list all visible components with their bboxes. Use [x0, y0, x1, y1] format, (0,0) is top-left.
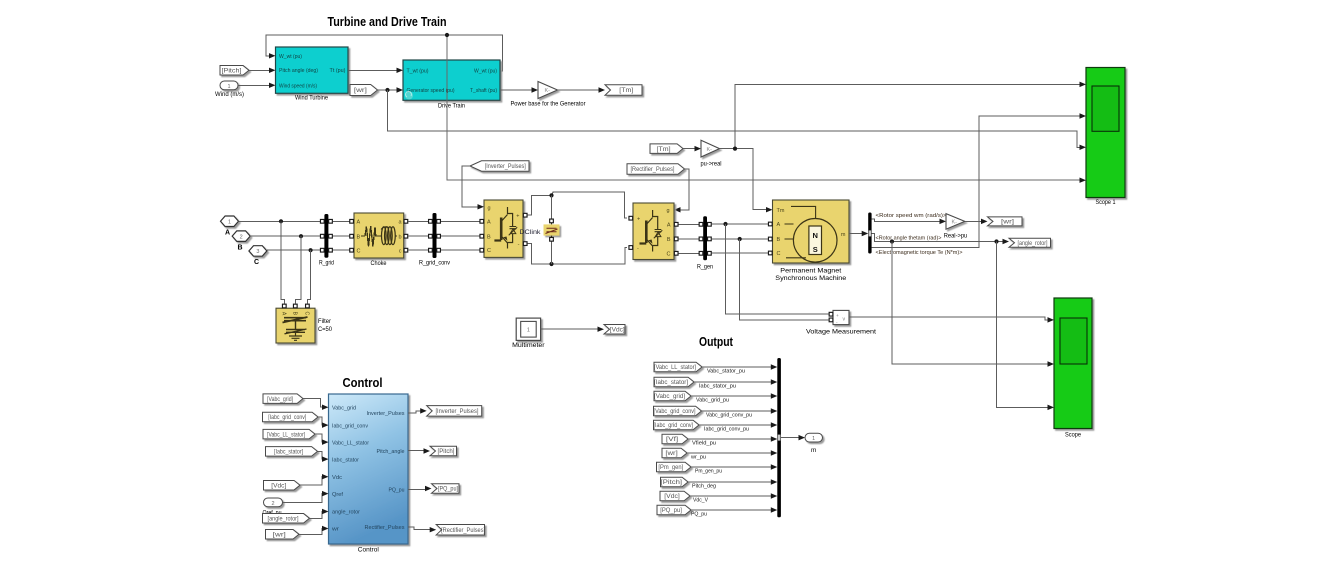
- svg-text:2: 2: [271, 501, 274, 507]
- wire electromagnetic torque to Scope1 in2: [872, 113, 1086, 256]
- svg-text:[Vdc]: [Vdc]: [271, 483, 286, 489]
- goto tag [Inverter_Pulses]: [427, 406, 482, 417]
- svg-text:C: C: [487, 248, 491, 254]
- wire rotor angle thetam: [872, 234, 1009, 245]
- wire [Iabc_grid_conv] to mux: [699, 422, 777, 432]
- wire PMSM B to voltage measurement: [740, 239, 829, 320]
- svg-text:[Inverter_Pulses]: [Inverter_Pulses]: [485, 164, 526, 170]
- wire wr to Control: [299, 526, 329, 535]
- wire gain to [wr] goto: [965, 219, 988, 224]
- from tag [wr] control: [266, 530, 300, 540]
- svg-text:[Vabc_LL_stator]: [Vabc_LL_stator]: [654, 365, 696, 371]
- svg-text:[Pitch]: [Pitch]: [222, 68, 242, 74]
- wire Control to [Inverter_Pulses]: [408, 408, 427, 413]
- wire Vdc to Control: [300, 474, 329, 485]
- wire gain to [Tm]: [558, 87, 606, 92]
- from tag [Tm]: [650, 144, 683, 154]
- svg-text:[Vdc]: [Vdc]: [610, 327, 625, 333]
- svg-text:[PQ_pu]: [PQ_pu]: [660, 508, 682, 514]
- wire Multimeter to [Vdc]: [541, 326, 604, 331]
- from tag [Vdc] output: [660, 491, 690, 501]
- mux Output: [777, 358, 781, 517]
- wire Control to [Pitch]: [408, 448, 430, 453]
- svg-text:Filter: Filter: [318, 318, 332, 325]
- svg-text:Synchronous Machine: Synchronous Machine: [775, 275, 846, 282]
- svg-text:Vabc_grid: Vabc_grid: [332, 405, 356, 411]
- from tag [Vabc_grid_conv] output: [654, 406, 702, 416]
- port 2: [232, 231, 250, 251]
- block Universal Bridge grid converter: [480, 200, 527, 257]
- from tag [Vdc] control: [264, 480, 301, 490]
- wire [Pitch] to mux: [688, 479, 777, 489]
- wire W_wt branch to Scope1 in4: [445, 33, 1086, 183]
- goto tag [angle_rotor]: [1009, 238, 1051, 247]
- wire [wr] to mux: [687, 450, 777, 460]
- svg-text:Control: Control: [358, 547, 380, 554]
- svg-text:[angle_rotor]: [angle_rotor]: [1018, 241, 1048, 247]
- svg-text:Control: Control: [343, 376, 383, 390]
- wire Rectifier_Pulses to converter g: [674, 169, 689, 213]
- svg-text:[Rectifier_Pulses]: [Rectifier_Pulses]: [630, 167, 674, 173]
- svg-text:Pitch_deg: Pitch_deg: [692, 484, 716, 490]
- wire wr to Scope1 in3: [388, 90, 1087, 150]
- from tag [Pm_gen] output: [657, 462, 692, 472]
- from tag [angle_rotor] control: [263, 514, 310, 524]
- wire rotor speed to gain: [872, 213, 948, 224]
- wire Pitch to Wind Turbine: [249, 68, 276, 73]
- svg-text:R_grid_conv: R_grid_conv: [419, 259, 451, 266]
- svg-text:Scope: Scope: [1065, 431, 1081, 438]
- svg-text:Scope 1: Scope 1: [1096, 199, 1116, 206]
- wire feedback W_wt to Wind Turbine: [266, 35, 503, 71]
- block Choke: [350, 213, 408, 267]
- svg-text:Turbine and Drive Train: Turbine and Drive Train: [328, 15, 447, 29]
- svg-text:Vabc_stator_pu: Vabc_stator_pu: [707, 369, 745, 375]
- svg-text:3: 3: [256, 249, 259, 255]
- svg-text:[Iabc_grid_conv]: [Iabc_grid_conv]: [268, 415, 306, 421]
- wire R_gen to PMSM A: [712, 222, 768, 226]
- wire voltage measurement to Scope in1: [849, 317, 1054, 323]
- svg-text:[Vf]: [Vf]: [666, 437, 679, 443]
- svg-text:N: N: [812, 231, 817, 240]
- wire DC plus rail: [528, 192, 628, 218]
- wire Wind speed to Wind Turbine: [238, 83, 276, 88]
- svg-text:PQ_pu: PQ_pu: [389, 488, 405, 494]
- svg-text:[Tm]: [Tm]: [619, 88, 633, 94]
- from tag [Rectifier_Pulses]: [627, 164, 685, 175]
- gain Real to pu: [944, 214, 968, 240]
- svg-text:A: A: [667, 222, 671, 228]
- gain Power base for the Generator: [511, 82, 587, 108]
- svg-text:g: g: [488, 206, 491, 212]
- wire Iabc_grid_conv to Control: [318, 417, 329, 428]
- svg-text:C: C: [777, 251, 781, 257]
- svg-text:T_shaft (pu): T_shaft (pu): [470, 88, 497, 94]
- svg-text:Tm: Tm: [777, 208, 785, 214]
- svg-text:Pitch_angle: Pitch_angle: [377, 449, 405, 455]
- svg-text:pu->real: pu->real: [701, 160, 722, 167]
- from tag [Vabc_grid] control: [263, 394, 303, 404]
- from tag [Vabc_grid] output: [654, 391, 691, 401]
- svg-text:Real->pu: Real->pu: [944, 232, 968, 239]
- port 3: [249, 246, 267, 266]
- svg-text:<Rotor speed wm (rad/s)>: <Rotor speed wm (rad/s)>: [876, 213, 948, 219]
- goto tag [wr]: [988, 217, 1023, 226]
- goto tag [Pitch]: [430, 446, 457, 456]
- svg-text:+: +: [516, 213, 519, 219]
- svg-text:C: C: [667, 251, 671, 257]
- svg-text:PQ_pu: PQ_pu: [691, 512, 707, 518]
- wire [PQ_pu] to mux: [691, 507, 777, 517]
- wire Iabc_stator to Control: [318, 451, 329, 461]
- svg-text:Vdc_V: Vdc_V: [693, 498, 708, 504]
- svg-text:[wr]: [wr]: [354, 88, 367, 94]
- block Filter: [276, 304, 332, 343]
- svg-text:Permanent Magnet: Permanent Magnet: [780, 267, 841, 274]
- scope Scope: [1054, 298, 1092, 438]
- svg-text:K-: K-: [952, 220, 958, 226]
- svg-text:Power base for the Generator: Power base for the Generator: [511, 101, 587, 108]
- wire thetam branch to Scope in2: [892, 242, 1054, 367]
- svg-text:[angle_rotor]: [angle_rotor]: [268, 516, 299, 522]
- constant 2 Qref_pu: [263, 498, 283, 516]
- svg-text:[Iabc_stator]: [Iabc_stator]: [274, 450, 303, 456]
- wire phase A drop to Filter: [281, 221, 284, 303]
- svg-text:Voltage Measurement: Voltage Measurement: [806, 328, 876, 335]
- svg-text:C=50: C=50: [318, 326, 332, 333]
- badge Drive Train subsystem: [405, 91, 413, 99]
- svg-text:+: +: [836, 314, 839, 319]
- goto tag [Rectifier_Pulses]: [436, 524, 485, 535]
- wire mux to outport m: [781, 435, 805, 440]
- svg-text:A: A: [777, 222, 781, 228]
- from tag [Inverter_Pulses]: [470, 161, 529, 172]
- svg-text:[Pitch]: [Pitch]: [661, 480, 683, 486]
- from tag [Iabc_stator] control: [266, 447, 318, 457]
- svg-text:Vabc_grid_pu: Vabc_grid_pu: [696, 398, 729, 404]
- block Universal Bridge machine converter: [629, 203, 678, 260]
- svg-text:Vdc: Vdc: [332, 475, 342, 481]
- from tag [Vabc_LL_stator] control: [263, 429, 315, 439]
- svg-text:T_wt (pu): T_wt (pu): [407, 68, 429, 74]
- svg-text:[Pm_gen]: [Pm_gen]: [658, 465, 683, 471]
- wire PMSM m to bus selector: [849, 231, 868, 236]
- goto tag [Vdc] multimeter: [604, 324, 625, 334]
- from tag [Vf] output: [662, 434, 688, 444]
- title Turbine and Drive Train: [328, 15, 447, 29]
- svg-text:wr_pu: wr_pu: [690, 455, 706, 461]
- svg-text:[wr]: [wr]: [665, 451, 678, 457]
- svg-text:Tt (pu): Tt (pu): [330, 68, 346, 74]
- wire thetam branch to Scope in3: [997, 242, 1055, 411]
- wire [Vabc_LL_stator] to mux: [702, 364, 777, 374]
- svg-text:[Vabc_grid_conv]: [Vabc_grid_conv]: [654, 409, 696, 415]
- wire phase B to R_grid: [250, 234, 320, 238]
- svg-text:B: B: [487, 234, 491, 240]
- svg-text:[Vabc_LL_stator]: [Vabc_LL_stator]: [267, 432, 305, 438]
- svg-text:[Vabc_grid]: [Vabc_grid]: [267, 397, 293, 403]
- svg-text:S: S: [813, 245, 818, 254]
- svg-text:Wind (m/s): Wind (m/s): [215, 91, 244, 98]
- svg-text:[Vabc_grid]: [Vabc_grid]: [654, 394, 685, 400]
- svg-text:B: B: [777, 237, 781, 243]
- wire [Vabc_grid] to mux: [691, 393, 777, 403]
- svg-text:Iabc_grid_conv_pu: Iabc_grid_conv_pu: [704, 427, 749, 433]
- svg-text:C: C: [357, 248, 361, 254]
- wire Tt to Drive Train: [348, 68, 403, 73]
- wire R_gen to PMSM B: [712, 237, 768, 241]
- svg-text:1: 1: [228, 219, 231, 225]
- svg-text:R_grid: R_grid: [319, 259, 334, 266]
- wire [Vf] to mux: [688, 436, 777, 446]
- wire [Vdc] to mux: [690, 493, 777, 503]
- from tag [Pitch]: [220, 66, 249, 76]
- wire Tm to gain pu-real: [683, 146, 701, 151]
- svg-text:W_wt (pu): W_wt (pu): [474, 68, 497, 74]
- wire Vabc_grid to Control: [303, 399, 329, 410]
- svg-text:Vabc_LL_stator: Vabc_LL_stator: [332, 440, 369, 446]
- wires converter to R_gen: [679, 224, 700, 253]
- svg-text:c: c: [399, 248, 402, 254]
- wire Vabc_LL_stator to Control: [315, 434, 329, 445]
- svg-text:Iabc_stator: Iabc_stator: [332, 457, 359, 463]
- svg-text:2: 2: [240, 234, 243, 240]
- svg-text:[Tm]: [Tm]: [657, 147, 671, 153]
- wire Qref to Control: [283, 491, 329, 503]
- wire T_shaft to gain: [500, 87, 538, 92]
- svg-text:Multimeter: Multimeter: [512, 342, 545, 349]
- svg-text:m: m: [811, 447, 816, 454]
- constant 1 Wind (m/s): [215, 81, 244, 98]
- wires Choke to R_grid_conv: [408, 221, 428, 250]
- svg-text:+: +: [637, 217, 640, 223]
- svg-text:A: A: [487, 219, 491, 225]
- svg-text:[wr]: [wr]: [1001, 220, 1014, 226]
- svg-text:Vfield_pu: Vfield_pu: [692, 441, 716, 447]
- svg-text:DClink: DClink: [520, 229, 542, 236]
- svg-text:[Iabc_grid_conv]: [Iabc_grid_conv]: [654, 423, 694, 429]
- svg-text:[PQ_pu]: [PQ_pu]: [438, 487, 458, 493]
- svg-text:K-: K-: [707, 147, 713, 153]
- wire wr to Drive Train: [378, 87, 404, 92]
- svg-text:v: v: [843, 317, 846, 323]
- goto tag [Tm]: [605, 85, 642, 96]
- svg-text:Iabc_grid_conv: Iabc_grid_conv: [332, 423, 368, 429]
- goto tag [PQ_pu]: [432, 484, 460, 494]
- svg-text:Rectifier_Pulses: Rectifier_Pulses: [365, 525, 405, 531]
- svg-text:-: -: [518, 242, 520, 248]
- wire DC minus rail: [528, 244, 628, 267]
- from tag [PQ_pu] output: [657, 505, 691, 515]
- svg-text:[Rectifier_Pulses]: [Rectifier_Pulses]: [441, 528, 485, 534]
- svg-text:Iabc_stator_pu: Iabc_stator_pu: [699, 384, 736, 390]
- svg-text:-: -: [637, 246, 639, 252]
- wire phase A to R_grid: [239, 219, 321, 223]
- block Wind Turbine: [276, 47, 349, 102]
- svg-text:Choke: Choke: [371, 260, 387, 267]
- wire [Pm_gen] to mux: [691, 464, 777, 474]
- svg-text:1: 1: [527, 328, 530, 334]
- svg-text:Wind speed (m/s): Wind speed (m/s): [279, 83, 317, 89]
- bus selector demux: [868, 213, 871, 254]
- svg-text:<Rotor angle thetam (rad)>: <Rotor angle thetam (rad)>: [876, 235, 943, 241]
- svg-text:m: m: [841, 232, 846, 238]
- svg-text:W_wt (pu): W_wt (pu): [279, 54, 302, 60]
- wire phase C drop to Filter: [307, 250, 310, 303]
- gain pu-real: [701, 140, 722, 167]
- wire [Vabc_grid_conv] to mux: [702, 408, 778, 418]
- svg-text:B: B: [667, 237, 671, 243]
- block Multimeter: [512, 318, 545, 349]
- svg-text:wr: wr: [331, 527, 339, 533]
- wire phase B drop to Filter: [295, 236, 301, 303]
- svg-text:A: A: [357, 220, 361, 226]
- wire phase C to R_grid: [267, 248, 320, 252]
- svg-text:Vabc_grid_conv_pu: Vabc_grid_conv_pu: [706, 413, 752, 419]
- svg-text:<Electromagnetic torque Te (N*: <Electromagnetic torque Te (N*m)>: [876, 250, 964, 256]
- wires R_grid to Choke: [333, 221, 350, 250]
- from tag [Iabc_grid_conv] output: [654, 420, 700, 430]
- block Control: [329, 394, 409, 554]
- svg-text:R_gen: R_gen: [697, 263, 713, 270]
- from tag [Pitch] output: [661, 477, 689, 487]
- svg-text:C: C: [254, 259, 259, 266]
- three-phase branch R_gen: [697, 216, 713, 270]
- wires R_grid_conv to converter: [441, 221, 482, 250]
- three-phase branch R_grid: [319, 214, 334, 266]
- svg-text:[wr]: [wr]: [273, 532, 286, 538]
- title Control: [343, 376, 383, 390]
- from tag [wr] output: [662, 448, 687, 458]
- wire Control to [PQ_pu]: [408, 486, 432, 491]
- outport m: [805, 433, 823, 454]
- block Permanent Magnet Synchronous Machine: [768, 200, 849, 282]
- block Drive Train: [403, 60, 500, 110]
- wire [Iabc_stator] to mux: [694, 379, 777, 389]
- three-phase branch R_grid_conv: [419, 213, 451, 266]
- from tag [Iabc_grid_conv] control: [263, 412, 319, 422]
- svg-text:b: b: [398, 235, 401, 241]
- svg-text:Pitch angle (deg): Pitch angle (deg): [279, 68, 318, 74]
- svg-text:B: B: [357, 235, 361, 241]
- svg-text:Output: Output: [699, 335, 734, 349]
- svg-text:Pm_gen_pu: Pm_gen_pu: [695, 469, 722, 475]
- capacitor DClink: [520, 195, 560, 264]
- wire PMSM A to voltage measurement: [726, 224, 829, 314]
- svg-text:[Iabc_stator]: [Iabc_stator]: [654, 380, 688, 386]
- svg-text:Qref: Qref: [332, 492, 343, 498]
- svg-text:C: C: [303, 311, 309, 315]
- wire gain to PMSM Tm and Scope1 in1: [720, 82, 1087, 213]
- from tag [wr] turbine: [350, 85, 378, 96]
- svg-text:[Inverter_Pulses]: [Inverter_Pulses]: [435, 409, 478, 415]
- svg-text:B: B: [237, 244, 242, 251]
- wire Inverter_Pulses to converter g: [462, 166, 484, 210]
- svg-text:K-: K-: [545, 88, 551, 94]
- svg-text:[Pitch]: [Pitch]: [438, 449, 455, 455]
- wire Control to [Rectifier_Pulses]: [408, 527, 436, 532]
- svg-text:Drive Train: Drive Train: [438, 103, 465, 110]
- svg-text:1: 1: [812, 436, 815, 442]
- title Output: [699, 335, 734, 349]
- svg-text:A: A: [225, 230, 230, 237]
- port 1: [221, 216, 239, 237]
- svg-text:g: g: [666, 208, 669, 214]
- scope Scope 1: [1086, 68, 1125, 206]
- from tag [Iabc_stator] output: [654, 377, 694, 387]
- wire angle_rotor to Control: [310, 509, 329, 519]
- from tag [Vabc_LL_stator] output: [654, 362, 702, 372]
- svg-text:Wind Turbine: Wind Turbine: [295, 95, 328, 102]
- svg-text:1: 1: [227, 84, 230, 90]
- svg-text:[Vdc]: [Vdc]: [664, 494, 680, 500]
- svg-text:Inverter_Pulses: Inverter_Pulses: [367, 411, 405, 417]
- block Voltage Measurement: [806, 310, 876, 335]
- wire R_gen to PMSM C: [712, 252, 768, 254]
- svg-text:angle_rotor: angle_rotor: [332, 510, 360, 516]
